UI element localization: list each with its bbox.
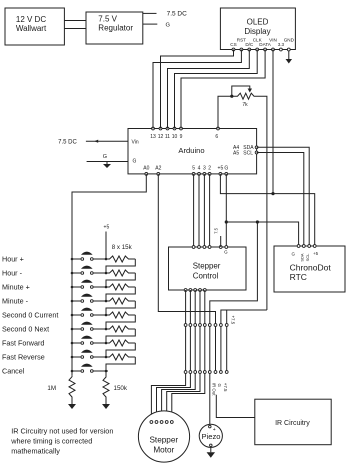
svg-text:Stepper: Stepper [149,436,178,445]
svg-text:ChronoDot: ChronoDot [290,263,332,273]
svg-text:4: 4 [198,166,201,172]
svg-text:Second 0 Current: Second 0 Current [2,311,58,320]
svg-text:9: 9 [180,134,183,140]
svg-text:OLED: OLED [247,18,269,27]
svg-text:Display: Display [244,27,270,36]
svg-text:RTC: RTC [290,272,307,282]
svg-text:13: 13 [150,134,156,140]
svg-text:Minute -: Minute - [2,297,29,306]
svg-text:1M: 1M [47,385,56,392]
svg-text:Arduino: Arduino [178,146,204,155]
svg-text:Stepper: Stepper [193,261,221,270]
svg-text:Fast Reverse: Fast Reverse [2,353,45,362]
svg-text:7.5: 7.5 [213,227,218,233]
svg-text:IR Circuitry: IR Circuitry [275,420,310,427]
svg-text:11: 11 [165,134,170,140]
svg-text:10: 10 [172,134,178,140]
svg-text:+7.5: +7.5 [223,383,228,392]
svg-text:+7.5: +7.5 [230,316,235,325]
svg-text:mathematically: mathematically [11,447,60,456]
svg-text:DATA: DATA [259,42,272,47]
svg-text:CS: CS [230,42,236,47]
svg-text:A0: A0 [143,166,149,172]
svg-text:G: G [103,154,107,160]
svg-text:A5: A5 [233,151,239,157]
svg-text:IR Circuitry not used for vers: IR Circuitry not used for version [11,427,113,436]
svg-text:7k: 7k [242,102,248,108]
svg-text:Minute +: Minute + [2,283,30,292]
svg-text:SDA: SDA [300,253,305,262]
svg-text:150k: 150k [114,385,128,392]
svg-text:SCL: SCL [243,151,253,157]
svg-text:Control: Control [193,271,219,280]
svg-text:D/C: D/C [245,42,254,47]
svg-text:IR Out: IR Out [212,383,217,396]
svg-text:Vin: Vin [132,139,139,145]
svg-text:A2: A2 [155,166,161,172]
svg-text:G: G [166,23,171,29]
svg-text:Piezo: Piezo [202,432,221,441]
svg-text:Motor: Motor [153,446,174,455]
svg-text:2: 2 [208,166,211,172]
svg-text:5: 5 [192,166,195,172]
svg-text:GND: GND [284,37,295,42]
svg-text:3: 3 [203,166,206,172]
svg-text:+5: +5 [104,225,110,231]
svg-text:7.5 DC: 7.5 DC [58,140,77,146]
svg-text:Hour +: Hour + [2,255,24,264]
svg-text:where timing is corrected: where timing is corrected [10,437,92,446]
svg-text:Wallwart: Wallwart [16,24,47,33]
svg-text:G: G [217,384,222,388]
svg-text:Cancel: Cancel [2,367,25,376]
svg-text:7.5 DC: 7.5 DC [167,11,188,18]
svg-text:12: 12 [158,134,164,140]
svg-text:G: G [224,249,228,254]
svg-text:+5: +5 [313,251,319,256]
svg-text:+5: +5 [218,166,224,172]
svg-text:Hour -: Hour - [2,269,23,278]
svg-text:G: G [224,166,228,172]
svg-text:G: G [291,251,295,256]
svg-text:12 V DC: 12 V DC [16,15,46,24]
svg-text:Second 0 Next: Second 0 Next [2,325,49,334]
svg-text:7.5 V: 7.5 V [98,15,117,24]
svg-text:3.3: 3.3 [278,42,285,47]
svg-text:6: 6 [215,134,218,140]
svg-text:Fast Forward: Fast Forward [2,339,44,348]
svg-text:8 x 15k: 8 x 15k [112,244,133,251]
svg-text:Regulator: Regulator [98,24,133,33]
svg-text:G: G [133,159,137,165]
svg-text:SCL: SCL [305,253,310,262]
